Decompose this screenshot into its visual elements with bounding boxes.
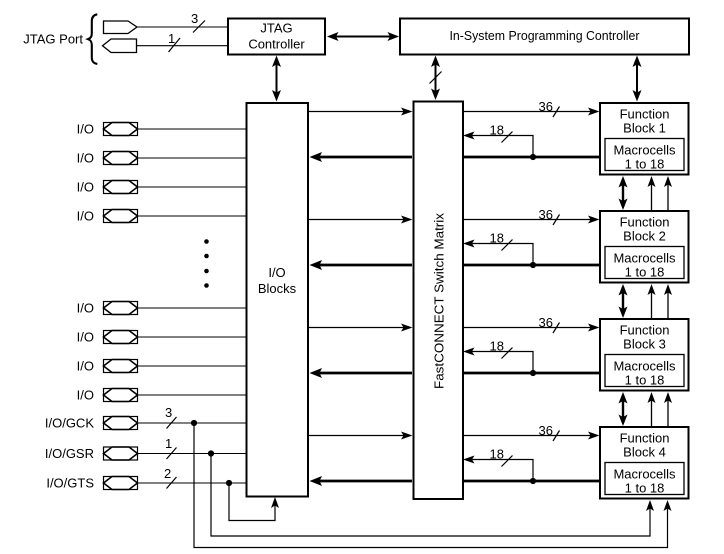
svg-text:36: 36 [539,315,553,330]
svg-text:Macrocells: Macrocells [613,359,676,374]
svg-text:I/O: I/O [77,209,94,224]
svg-text:1 to 18: 1 to 18 [625,157,665,172]
svg-text:Function: Function [620,107,670,122]
svg-text:I/O/GSR: I/O/GSR [45,446,94,461]
svg-text:Function: Function [620,215,670,230]
svg-text:3: 3 [165,405,172,420]
svg-text:1 to 18: 1 to 18 [625,265,665,280]
svg-text:Macrocells: Macrocells [613,251,676,266]
svg-text:1 to 18: 1 to 18 [625,373,665,388]
svg-text:18: 18 [490,231,504,246]
svg-text:I/O: I/O [77,180,94,195]
svg-text:I/O: I/O [77,359,94,374]
svg-text:Function: Function [620,323,670,338]
svg-text:I/O: I/O [77,388,94,403]
svg-text:I/O: I/O [77,122,94,137]
svg-text:18: 18 [490,123,504,138]
svg-text:36: 36 [539,99,553,114]
svg-text:36: 36 [539,423,553,438]
svg-text:2: 2 [164,466,171,481]
svg-text:18: 18 [490,447,504,462]
svg-text:JTAG Port: JTAG Port [23,32,83,47]
svg-text:Block 2: Block 2 [623,229,666,244]
svg-text:FastCONNECT Switch Matrix: FastCONNECT Switch Matrix [432,212,447,389]
svg-text:Function: Function [620,431,670,446]
svg-text:I/O: I/O [77,330,94,345]
svg-text:Macrocells: Macrocells [613,143,676,158]
svg-text:Blocks: Blocks [258,281,297,296]
svg-text:36: 36 [539,207,553,222]
svg-text:I/O/GTS: I/O/GTS [46,476,94,491]
svg-text:Block 3: Block 3 [623,337,666,352]
svg-text:1: 1 [165,436,172,451]
svg-text:I/O/GCK: I/O/GCK [45,416,94,431]
svg-text:I/O: I/O [77,301,94,316]
svg-text:Controller: Controller [248,37,305,52]
svg-text:3: 3 [191,11,198,26]
svg-text:Block 1: Block 1 [623,121,666,136]
svg-text:Block 4: Block 4 [623,445,666,460]
svg-text:18: 18 [490,339,504,354]
svg-text:1 to 18: 1 to 18 [625,481,665,496]
svg-text:I/O: I/O [77,151,94,166]
svg-text:I/O: I/O [268,265,285,280]
svg-text:1: 1 [168,31,175,46]
svg-text:JTAG: JTAG [260,21,292,36]
svg-text:Macrocells: Macrocells [613,467,676,482]
svg-text:In-System Programming Controll: In-System Programming Controller [450,28,641,43]
